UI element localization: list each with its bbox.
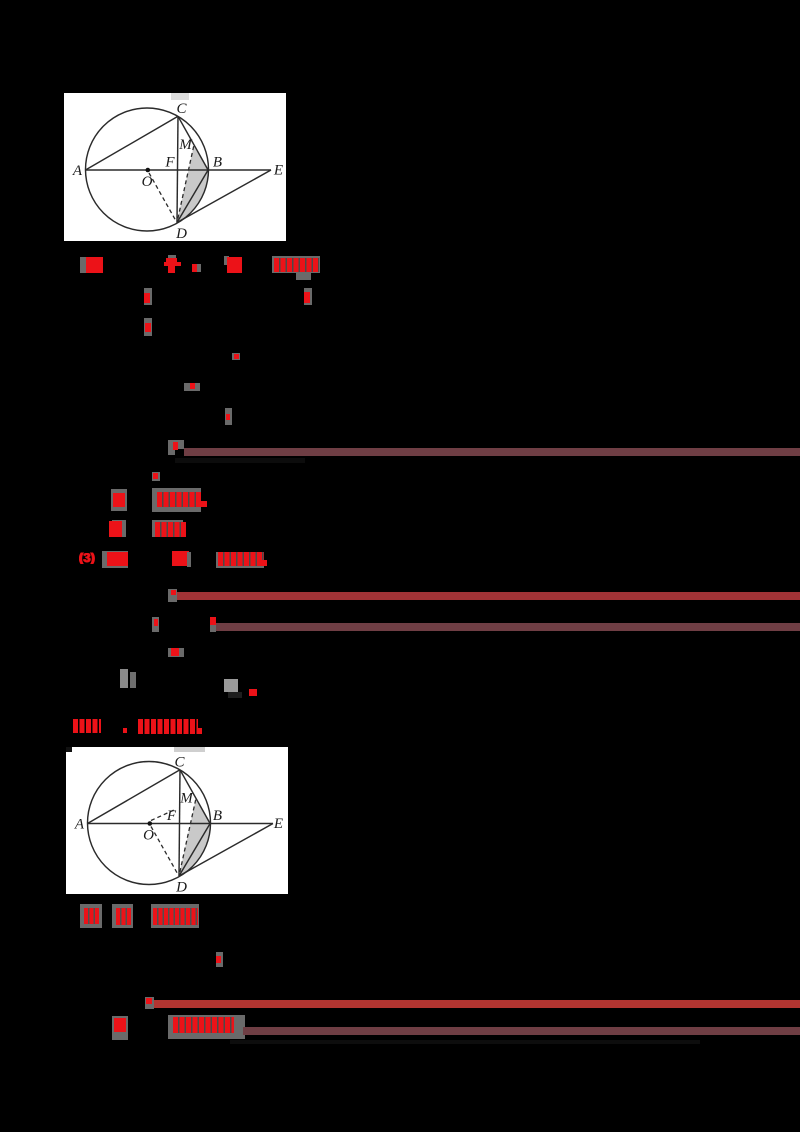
svg-text:B: B [213, 155, 222, 171]
svg-text:A: A [72, 163, 83, 179]
svg-text:O: O [143, 828, 154, 844]
svg-text:B: B [213, 808, 222, 824]
svg-text:D: D [175, 226, 187, 241]
svg-text:C: C [176, 101, 187, 117]
svg-text:M: M [179, 791, 194, 807]
svg-text:D: D [175, 880, 187, 895]
svg-text:E: E [273, 816, 283, 832]
svg-text:F: F [164, 155, 175, 171]
svg-text:M: M [178, 137, 193, 153]
svg-text:E: E [273, 163, 283, 179]
svg-text:O: O [142, 174, 153, 190]
svg-text:F: F [166, 808, 177, 824]
svg-text:C: C [174, 755, 185, 771]
svg-text:A: A [74, 817, 85, 833]
